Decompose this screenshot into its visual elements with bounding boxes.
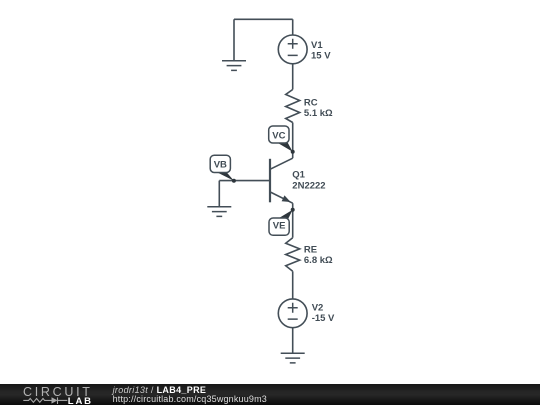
svg-text:-15 V: -15 V	[312, 313, 335, 324]
svg-text:VC: VC	[272, 130, 285, 141]
svg-text:15 V: 15 V	[311, 51, 331, 62]
svg-text:V2: V2	[312, 303, 324, 314]
svg-text:VB: VB	[214, 160, 227, 171]
svg-text:6.8 kΩ: 6.8 kΩ	[304, 255, 333, 266]
svg-text:Q1: Q1	[292, 170, 305, 181]
svg-text:VE: VE	[273, 221, 286, 232]
svg-text:LAB: LAB	[68, 396, 93, 405]
svg-text:V1: V1	[311, 40, 323, 51]
svg-text:RC: RC	[304, 98, 318, 109]
svg-text:RE: RE	[304, 245, 317, 256]
svg-text:5.1 kΩ: 5.1 kΩ	[304, 108, 333, 119]
svg-text:2N2222: 2N2222	[292, 180, 325, 191]
